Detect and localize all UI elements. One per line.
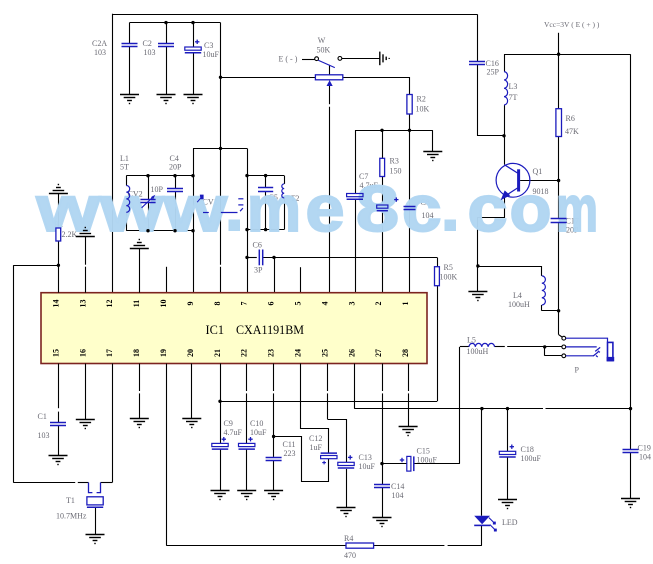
ground (C13) (337, 508, 356, 517)
svg-text:5T: 5T (120, 163, 129, 172)
svg-text:470: 470 (344, 551, 356, 560)
capacitor C7 (4.7uF on pin 3) (347, 194, 363, 197)
junction dot (506, 407, 509, 410)
capacitor C10 10uF (239, 443, 255, 446)
svg-text:13: 13 (78, 300, 87, 308)
FM tank: top wire (126, 175, 193, 177)
svg-text:6: 6 (267, 302, 276, 306)
svg-text:T1: T1 (66, 496, 75, 505)
wire pin 15 to C1 (58, 364, 60, 409)
wire crystal to ground (95, 507, 97, 534)
capacitor C15 100uF (horizontal) (382, 463, 384, 465)
junction dot (272, 435, 275, 438)
junction dot (272, 256, 275, 259)
svg-text:100K: 100K (440, 273, 458, 282)
svg-text:C2: C2 (143, 39, 152, 48)
AM tank: bottom wire (247, 229, 284, 231)
inductor coil (542, 276, 546, 305)
capacitor C1 103 (50, 423, 66, 426)
svg-text:25P: 25P (487, 68, 500, 77)
ground (C2A) (120, 95, 139, 104)
crystal T1 body (87, 483, 103, 508)
ground (C3) (184, 95, 203, 104)
junction dot (502, 134, 505, 137)
wire pin 20 to ground (191, 364, 193, 419)
ground symbol pin 13 (76, 228, 95, 237)
junction dot (408, 129, 411, 132)
wire LED to bottom rail (481, 525, 483, 545)
capacitor C16 25P (477, 14, 479, 61)
wire R4 to LED branch (374, 545, 445, 547)
capacitor C18 100uF (507, 409, 509, 452)
svg-text:10: 10 (159, 300, 168, 308)
svg-text:103: 103 (38, 431, 50, 440)
wire pin 17 to crystal rail (112, 364, 114, 483)
svg-text:C1: C1 (38, 412, 47, 421)
wire inner top rail (130, 22, 221, 24)
svg-text:12: 12 (105, 300, 114, 308)
capacitor plates (167, 189, 183, 192)
wire pin 19 to bottom rail (166, 364, 168, 546)
svg-text:L3: L3 (509, 82, 518, 91)
wire R3 to coupling cap (382, 177, 384, 205)
switch W blade (318, 60, 335, 67)
svg-text:23: 23 (267, 349, 276, 357)
svg-text:50K: 50K (317, 46, 331, 55)
wire pin 27 to C14/C15 node (382, 364, 384, 392)
ground (emitter) (468, 292, 487, 301)
junction dot (57, 264, 60, 267)
wire pin 16 to ground (85, 364, 87, 420)
svg-text:25: 25 (320, 349, 329, 357)
wire Vcc rail (504, 54, 631, 56)
wire pot left (221, 77, 316, 79)
capacitor C19 104 (630, 409, 632, 450)
resistor R4 470 (346, 543, 374, 548)
inductor coil (504, 72, 508, 105)
capacitor (pin 2 coupling) (377, 205, 388, 208)
ground (switch, sideways) (380, 52, 389, 66)
wire R1 to pin 14 (58, 241, 60, 293)
trimmer fragment near pin 7 (238, 199, 243, 211)
capacitor plates (623, 450, 639, 453)
svg-text:C13: C13 (359, 453, 372, 462)
svg-text:21: 21 (213, 349, 222, 357)
wire pin 7 rail (247, 148, 249, 292)
electrolytic capacitor plates (185, 47, 201, 50)
svg-text:100uH: 100uH (467, 347, 489, 356)
svg-text:IC1: IC1 (206, 322, 225, 337)
capacitor C9 4.7uF (212, 443, 228, 446)
wire down to R5 (437, 257, 439, 266)
svg-text:R5: R5 (444, 263, 453, 272)
svg-text:27: 27 (374, 349, 383, 357)
watermark www.me8c.com (35, 172, 598, 245)
resistor R1 body (56, 228, 61, 241)
svg-text:4: 4 (320, 302, 329, 306)
ground (C18) (498, 500, 517, 509)
wire right edge rail (630, 54, 632, 408)
capacitor C11 223 (266, 458, 282, 461)
capacitor plates (140, 200, 155, 203)
svg-text:R4: R4 (344, 534, 353, 543)
svg-text:3: 3 (347, 302, 356, 306)
svg-text:C9: C9 (224, 419, 233, 428)
ground symbol (R1) (49, 185, 68, 194)
junction dot (173, 174, 176, 177)
capacitor C15 plates (407, 456, 411, 471)
wire pin 21 / line A (220, 364, 222, 444)
capacitor C17 (558, 181, 560, 219)
junction dot (218, 400, 221, 403)
svg-text:104: 104 (392, 491, 404, 500)
junction dot (543, 345, 546, 348)
svg-text:m: m (556, 172, 598, 245)
resistor R3 (380, 158, 385, 176)
capacitor plates (122, 44, 138, 47)
ground symbol pin 11 (130, 240, 149, 249)
svg-text:C15: C15 (417, 447, 430, 456)
wire jack middle/bottom links (545, 346, 562, 348)
svg-text:1uF: 1uF (310, 443, 323, 452)
junction dot (380, 462, 383, 465)
wire base to R6/C17 node (520, 180, 559, 182)
wire pin 28 to ground (408, 364, 410, 392)
svg-text:19: 19 (159, 349, 168, 357)
headphone jack P (558, 311, 560, 335)
inductor coil (282, 184, 284, 198)
wire pin 8 rail from inner top rail down (220, 23, 222, 265)
junction dot (245, 228, 248, 231)
wire pin 5 stub (300, 267, 302, 293)
svg-text:10uF: 10uF (250, 428, 267, 437)
junction dot (146, 174, 149, 177)
svg-text:LED: LED (502, 518, 518, 527)
svg-text:11: 11 (132, 300, 141, 308)
capacitor plates (258, 188, 273, 192)
IC1 CXA1191BM body (41, 293, 427, 364)
svg-text:R6: R6 (566, 114, 575, 123)
wire R5 to line A (437, 286, 439, 402)
svg-text:m: m (247, 172, 301, 245)
wire R2 bottom to node (409, 114, 411, 130)
wire switch to ground (342, 58, 380, 60)
wire C12 loop (274, 437, 329, 482)
resistor body (556, 109, 562, 137)
capacitor plates (551, 219, 567, 223)
capacitor C14 104 (374, 485, 390, 488)
svg-text:103: 103 (144, 48, 156, 57)
FM tank: bottom wire (126, 230, 193, 232)
ground (R2 node) (423, 152, 442, 161)
svg-text:26: 26 (347, 349, 356, 357)
wire pin 1 rail (409, 130, 411, 206)
ground (C14) (373, 518, 392, 527)
wire pin 25 to C13 (327, 364, 329, 392)
svg-text:100uH: 100uH (508, 300, 530, 309)
svg-text:R2: R2 (417, 95, 426, 104)
svg-text:w: w (162, 172, 227, 245)
ground (C10) (237, 491, 256, 500)
inductor coil (126, 186, 129, 213)
junction dot (191, 174, 194, 177)
wire bottom rail to R4 (166, 545, 346, 547)
wire junction rail y=148 (193, 148, 247, 150)
top rail wire (113, 14, 477, 16)
svg-text:3P: 3P (254, 266, 263, 275)
junction dot (219, 76, 222, 79)
svg-text:4.7uF: 4.7uF (224, 428, 243, 437)
wire switch blade to wiper (329, 65, 331, 81)
wire pin 22 to C10 (246, 364, 248, 392)
ground (C11) (264, 491, 283, 500)
ground (C19) (621, 499, 640, 508)
svg-text:o: o (510, 172, 552, 245)
junction dot (264, 174, 267, 177)
svg-text:C18: C18 (521, 445, 534, 454)
svg-text:10K: 10K (416, 105, 430, 114)
wire / pin 12 rail (left edge of top box down to IC pin 12) (112, 14, 114, 293)
svg-text:C14: C14 (391, 482, 404, 491)
potentiometer W wiper arrow (327, 80, 333, 86)
capacitor plates (469, 62, 485, 65)
capacitor plates (158, 44, 174, 47)
svg-text:18: 18 (132, 349, 141, 357)
ground (pin 28) (399, 427, 418, 436)
svg-text:c: c (468, 172, 508, 245)
capacitor C12 polarity mark (322, 461, 326, 465)
svg-text:28: 28 (401, 349, 410, 357)
wire emitter to ground (478, 198, 505, 292)
switch W left contact (315, 57, 319, 61)
junction dot (245, 174, 248, 177)
junction dot (146, 229, 149, 232)
svg-text:16: 16 (78, 349, 87, 357)
resistor R1 2.2K with ground above (58, 193, 60, 228)
junction dot (219, 147, 222, 150)
junction dot (557, 309, 560, 312)
svg-text:7: 7 (240, 302, 249, 306)
junction dot (557, 53, 560, 56)
wire left rail (13, 265, 15, 482)
junction dot (164, 21, 167, 24)
wire pin 2 rail lower (382, 212, 384, 293)
wire node rail y=130 (355, 130, 433, 132)
capacitor C3 (electrolytic 10uF) (193, 23, 195, 47)
LED symbol (474, 516, 490, 524)
svg-text:w: w (99, 172, 164, 245)
ground (T1) (86, 535, 105, 544)
svg-text:10.7MHz: 10.7MHz (56, 512, 87, 521)
junction dot (191, 21, 194, 24)
svg-text:CXA1191BM: CXA1191BM (236, 322, 304, 337)
inductor L1 (126, 176, 128, 186)
ground (pin 11, inverted) (139, 248, 141, 292)
switch W right contact (338, 57, 342, 61)
ground (pin 13, inverted) (85, 237, 87, 265)
resistor R2 (407, 95, 412, 115)
svg-text:20P: 20P (169, 163, 182, 172)
capacitor C8 (404, 207, 416, 210)
svg-text:E ( - ): E ( - ) (279, 55, 298, 64)
ground (C1) (49, 456, 68, 465)
inductor L5 100uH (460, 346, 469, 348)
capacitor C2A (129, 23, 131, 44)
resistor R5 (435, 267, 440, 286)
wire pin 9 rail (193, 148, 195, 292)
inductor L3 7T (504, 54, 506, 71)
wire C6 to R5 rail y=257 (263, 257, 437, 259)
svg-text:17: 17 (105, 349, 114, 357)
svg-text:7T: 7T (509, 93, 518, 102)
svg-text:10uF: 10uF (359, 462, 376, 471)
capacitor C12 1uF (321, 452, 337, 454)
switch W terminal E(-) wire (302, 59, 315, 61)
LED (481, 409, 483, 516)
svg-text:C19: C19 (638, 444, 651, 453)
svg-text:103: 103 (94, 48, 106, 57)
AM tank: top wire (247, 175, 284, 177)
svg-text:104: 104 (639, 453, 651, 462)
inductor coil (469, 343, 495, 346)
svg-text:C2A: C2A (92, 39, 107, 48)
potentiometer W body (315, 75, 342, 80)
svg-text:e: e (306, 172, 345, 245)
wire pin 26 / line B (354, 364, 356, 409)
varactor CV1 fragments (200, 195, 204, 200)
wire pin 18 to ground (139, 364, 141, 392)
capacitor C2 (166, 23, 168, 44)
junction dot (380, 129, 383, 132)
svg-text:1: 1 (401, 302, 410, 306)
svg-text:2: 2 (374, 302, 383, 306)
wire pin 6 stub (274, 257, 276, 292)
trimmer CV2 arrow (142, 197, 154, 208)
svg-text:P: P (575, 366, 580, 375)
capacitor C4 20P (175, 176, 177, 189)
svg-text:c: c (402, 172, 442, 245)
svg-text:14: 14 (51, 300, 60, 308)
wire pot right to R2 (343, 78, 410, 95)
svg-text:223: 223 (284, 449, 296, 458)
svg-text:C12: C12 (309, 434, 322, 443)
svg-text:Vcc=3V ( E ( + ) ): Vcc=3V ( E ( + ) ) (544, 20, 600, 29)
wire pin 2 rail upper (382, 130, 384, 158)
wire wiper down to IC pin 4 (329, 86, 331, 104)
ground (C9) (211, 491, 230, 500)
svg-text:24: 24 (294, 349, 303, 357)
svg-text:10uF: 10uF (203, 50, 220, 59)
ground (pin 18) (130, 419, 149, 428)
svg-text:9: 9 (186, 302, 195, 306)
junction dot (264, 228, 267, 231)
svg-text:W: W (318, 36, 326, 45)
junction dot (557, 179, 560, 182)
junction dot (191, 229, 194, 232)
electrolytic capacitor plates (499, 451, 515, 454)
inductor L4 100uH (478, 266, 542, 268)
inductor T2 (284, 176, 286, 184)
capacitor C5 (265, 176, 267, 188)
svg-text:100uF: 100uF (521, 454, 542, 463)
svg-text:L4: L4 (513, 291, 522, 300)
junction dot (480, 407, 483, 410)
wire to ground stem (432, 130, 434, 151)
wire pin 23 to C11 (273, 364, 275, 392)
jack plug symbol (566, 338, 613, 360)
wire pin 3 rail (355, 130, 357, 193)
wire Vcc stub (558, 33, 560, 54)
capacitor C6 plates (259, 250, 262, 266)
junction dot (476, 264, 479, 267)
svg-text:15: 15 (51, 349, 60, 357)
ground (pin 16) (76, 420, 95, 429)
capacitor C13 10uF (338, 462, 354, 465)
svg-text:C10: C10 (250, 419, 263, 428)
svg-text:47K: 47K (565, 127, 579, 136)
junction dot (173, 229, 176, 232)
svg-text:20: 20 (186, 349, 195, 357)
junction dot (629, 407, 632, 410)
wire pin 24 to C12 top (301, 364, 329, 454)
transistor Q1 symbol (496, 163, 530, 197)
svg-text:R3: R3 (390, 157, 399, 166)
wire C15 to L5 (414, 463, 460, 465)
svg-text:5: 5 (294, 302, 303, 306)
svg-text:22: 22 (240, 349, 249, 357)
capacitor C6 3P (247, 257, 257, 259)
wire crystal rail (13, 482, 75, 484)
resistor R6 47K (558, 54, 560, 108)
trimmer capacitor CV2 (148, 176, 150, 200)
wire pin 14 to left rail (13, 265, 58, 267)
svg-text:8: 8 (213, 302, 222, 306)
ground (pin 20) (182, 419, 201, 428)
wire pin 10 stub (166, 267, 168, 293)
ground (C2) (157, 95, 176, 104)
svg-text:C3: C3 (204, 41, 213, 50)
junction dot (245, 256, 248, 259)
svg-text:C11: C11 (283, 440, 296, 449)
